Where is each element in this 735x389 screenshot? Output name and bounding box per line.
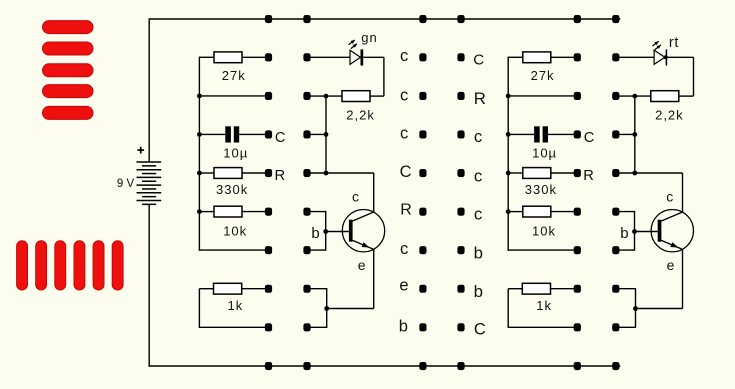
pin dot colA row8 right	[574, 323, 581, 331]
node letter c mid-right row5	[474, 205, 482, 224]
wire emitter bracket right	[635, 288, 637, 328]
LED gn light arrows	[349, 40, 357, 49]
pin dot colB row8 left	[303, 323, 310, 331]
capacitor 10u right	[534, 126, 548, 142]
wire emitter junction to emitter right	[636, 308, 683, 310]
svg-text:10µ: 10µ	[532, 146, 557, 161]
wire emitter bracket left	[326, 288, 328, 328]
node letter R row4 left	[275, 168, 286, 184]
junction base right	[632, 229, 637, 234]
pin dot colA row2 left	[265, 92, 272, 100]
pin dot colB row4 right	[612, 169, 619, 177]
wire junction down right	[634, 96, 636, 173]
wire bus to R 330k left	[199, 172, 214, 174]
wire 330k to node right	[551, 172, 578, 174]
pin dot colB row3 right	[612, 130, 619, 138]
wire bus to R 27k left	[199, 56, 214, 58]
pin dot colB row6 right	[612, 246, 619, 254]
svg-text:1k: 1k	[228, 298, 244, 313]
wire collector vertical left	[373, 173, 375, 212]
LED rt light arrows	[653, 41, 661, 50]
svg-text:b: b	[474, 282, 483, 301]
junction bus row5 left	[197, 209, 202, 214]
label 27k left	[222, 68, 246, 83]
svg-text:c: c	[352, 188, 359, 204]
pin dot mid-left row4	[419, 169, 426, 177]
svg-text:330k: 330k	[525, 182, 557, 197]
pin dot colA row3 right	[574, 130, 581, 138]
label 1k left	[228, 298, 244, 313]
svg-text:C: C	[584, 130, 595, 146]
wire bus to R 10k right	[508, 211, 523, 213]
node dot bottom rail a	[265, 362, 272, 370]
transistor Q right	[635, 210, 694, 252]
svg-text:R: R	[583, 168, 594, 184]
label rt	[669, 35, 679, 51]
junction row3 left	[324, 132, 329, 137]
wire 27k to node right	[551, 56, 578, 58]
wire node row3 stub left	[307, 133, 326, 135]
pin dot colA row1 left	[265, 53, 272, 61]
pin dot mid-left row1	[419, 53, 426, 61]
label 10u right	[532, 146, 557, 161]
resistor 330k right	[523, 168, 551, 179]
pin dot colB row6 left	[303, 246, 310, 254]
wire LED rt to corner	[666, 56, 693, 58]
svg-text:c: c	[474, 205, 482, 224]
label c collector left	[352, 188, 359, 204]
svg-text:e: e	[667, 257, 675, 273]
pin dot colB row7 left	[303, 285, 310, 293]
wire 2.2k to LED corner right	[679, 95, 694, 97]
pin dot colB row3 left	[303, 130, 310, 138]
wire bus to R 27k right	[508, 56, 523, 58]
wire LED gn to corner	[363, 56, 384, 58]
wire 1k bracket left	[198, 289, 200, 328]
pin dot mid-right row7	[457, 285, 464, 293]
wire node row7 to bracket left	[307, 288, 327, 290]
red bar marker H5	[43, 106, 94, 119]
wire bus to node row2 right	[508, 95, 577, 97]
node letter c mid-left row1	[400, 47, 408, 65]
wire supply bus right	[507, 57, 509, 251]
red bar marker H1	[43, 21, 94, 34]
svg-text:C: C	[474, 321, 486, 339]
node letter C mid-right row8	[474, 321, 486, 339]
node dot bottom rail c3	[419, 362, 426, 370]
wire node row5 to bracket right	[616, 211, 635, 213]
wire bracket to node row8 right	[508, 326, 577, 328]
pin dot mid-left row2	[419, 92, 426, 100]
node letter C mid-left row4	[400, 163, 412, 181]
LED rt diode	[654, 49, 666, 65]
red bar marker V1	[17, 241, 28, 290]
wire emitter junction to emitter left	[327, 308, 374, 310]
pin dot colA row6 right	[574, 246, 581, 254]
node letter b mid-right row6	[474, 243, 483, 262]
red bar marker H3	[43, 64, 94, 77]
node dot bottom rail b	[303, 362, 310, 370]
wire bracket to node row8 left	[199, 326, 268, 328]
wire battery negative to bottom rail	[148, 204, 150, 366]
svg-text:R: R	[474, 89, 486, 108]
junction bus row3 left	[197, 132, 202, 137]
red bar marker V4	[74, 241, 85, 290]
svg-text:27k: 27k	[531, 68, 555, 83]
pin dot mid-left row6	[419, 246, 426, 254]
resistor 10k left	[214, 206, 242, 217]
wire corner down to 2.2k (right)	[693, 57, 695, 96]
node letter R row4 right	[583, 168, 594, 184]
label 9 V	[117, 178, 135, 190]
svg-text:2,2k: 2,2k	[346, 108, 375, 123]
svg-text:10k: 10k	[223, 224, 247, 239]
wire 10k to node left	[242, 211, 269, 213]
pin dot mid-right row6	[457, 246, 464, 254]
pin dot colA row2 right	[574, 92, 581, 100]
wire bus to R 10k left	[199, 211, 214, 213]
junction row3 right	[632, 132, 637, 137]
wire node row6 to bracket left	[307, 249, 326, 251]
node letter R mid-right row2	[474, 89, 486, 108]
wire node row4 to collector right	[616, 172, 683, 174]
node dot top rail c	[574, 15, 581, 23]
resistor 2.2k left	[342, 91, 370, 102]
wire node row6 to bracket right	[616, 249, 635, 251]
battery B1 9V	[137, 162, 162, 204]
wire base bracket left	[325, 211, 327, 251]
resistor 1k right	[522, 283, 550, 294]
pin dot mid-left row3	[419, 130, 426, 138]
wire corner down to 2.2k (left)	[383, 57, 385, 96]
wire node to junction 2.2k left	[307, 95, 342, 97]
svg-text:b: b	[399, 317, 408, 335]
svg-text:b: b	[620, 225, 628, 242]
junction bus row3 right	[506, 132, 511, 137]
junction emitter bracket left	[324, 306, 329, 311]
svg-text:c: c	[400, 47, 408, 65]
wire bus to C 10u right	[508, 133, 534, 135]
red bar marker V2	[36, 241, 47, 290]
svg-text:c: c	[400, 240, 408, 258]
node letter e mid-left row7	[399, 277, 408, 295]
svg-text:e: e	[399, 277, 408, 295]
capacitor 10u left	[225, 126, 239, 142]
node letter c mid-right row4	[474, 167, 482, 186]
pin dot colB row8 right	[612, 323, 619, 331]
pin dot colA row7 right	[574, 285, 581, 293]
pin dot mid-left row7	[419, 285, 426, 293]
wire node row4 to collector left	[307, 172, 374, 174]
pin dot colA row5 left	[265, 208, 272, 216]
label 10k left	[223, 224, 247, 239]
wire bracket to R 1k right	[508, 288, 522, 290]
node letter c mid-right row3	[474, 127, 482, 146]
pin dot colB row1 right	[612, 53, 619, 61]
wire 1k to node left	[242, 288, 269, 290]
label gn	[361, 30, 377, 45]
wire battery positive to top rail	[148, 19, 150, 162]
label e emitter left	[358, 257, 366, 273]
pin dot colA row5 right	[574, 208, 581, 216]
red bar marker V5	[93, 241, 104, 290]
pin dot colA row7 left	[265, 285, 272, 293]
label 330k right	[525, 182, 557, 197]
label 2.2k left	[346, 108, 375, 123]
label 330k left	[216, 182, 248, 197]
pin dot colB row2 left	[303, 92, 310, 100]
resistor 27k right	[523, 52, 551, 63]
pin dot mid-left row5	[419, 208, 426, 216]
wire 330k to node left	[242, 172, 269, 174]
label 1k right	[536, 298, 552, 313]
wire node row5 to bracket left	[307, 211, 326, 213]
pin dot colA row1 right	[574, 53, 581, 61]
wire 10k to node right	[551, 211, 578, 213]
wire bus to node row2 left	[199, 95, 268, 97]
node letter C row3 left	[275, 130, 286, 146]
node letter c mid-left row3	[400, 124, 408, 142]
pin dot colA row6 left	[265, 246, 272, 254]
junction row4 left	[324, 171, 329, 176]
svg-text:C: C	[473, 52, 484, 69]
pin dot colB row7 right	[612, 285, 619, 293]
resistor 2.2k right	[651, 91, 679, 102]
label 2.2k right	[655, 108, 684, 123]
red bar marker H2	[43, 42, 94, 55]
node dot bottom rail c4	[457, 362, 464, 370]
wire node row8 to bracket left	[307, 326, 327, 328]
svg-text:10µ: 10µ	[223, 146, 248, 161]
pin dot mid-right row5	[457, 208, 464, 216]
node dot top rail b	[303, 15, 310, 23]
pin dot mid-right row4	[457, 169, 464, 177]
pin dot mid-left row8	[419, 323, 426, 331]
wire 10u to node right	[548, 133, 577, 135]
node letter c mid-left row6	[400, 240, 408, 258]
svg-text:c: c	[400, 86, 408, 104]
label 10k right	[532, 224, 556, 239]
svg-text:10k: 10k	[532, 224, 556, 239]
node letter C mid-right row1	[473, 52, 484, 69]
label b base left	[311, 225, 319, 242]
junction bus row4 right	[506, 171, 511, 176]
svg-text:gn: gn	[361, 30, 377, 45]
svg-text:c: c	[400, 124, 408, 142]
pin dot colA row8 left	[265, 323, 272, 331]
svg-text:c: c	[474, 167, 482, 186]
node letter b mid-right row7	[474, 282, 483, 301]
svg-text:9 V: 9 V	[117, 178, 135, 190]
node dot top rail c4	[457, 15, 464, 23]
pin dot mid-right row2	[457, 92, 464, 100]
pin dot mid-right row3	[457, 130, 464, 138]
wire node row7 to bracket right	[616, 288, 636, 290]
pin dot mid-right row8	[457, 323, 464, 331]
label 10u left	[223, 146, 248, 161]
svg-text:b: b	[474, 243, 483, 262]
resistor 10k right	[523, 206, 551, 217]
node dot bottom rail c	[574, 362, 581, 370]
wire 2.2k to LED corner left	[370, 95, 384, 97]
label e emitter right	[667, 257, 675, 273]
svg-text:e: e	[358, 257, 366, 273]
svg-text:rt: rt	[669, 35, 679, 51]
label b base right	[620, 225, 628, 242]
wire node to junction 2.2k right	[616, 95, 651, 97]
wire 10u to node left	[239, 133, 268, 135]
junction 2.2k left right	[632, 94, 637, 99]
pin dot colB row4 left	[303, 169, 310, 177]
red bar marker H4	[43, 85, 94, 98]
svg-text:C: C	[275, 130, 286, 146]
pin dot colB row5 left	[303, 208, 310, 216]
junction 2.2k left left	[324, 94, 329, 99]
wire top rail	[149, 18, 621, 20]
wire supply bus left	[198, 57, 200, 251]
svg-text:330k: 330k	[216, 182, 248, 197]
wire bus to C 10u left	[199, 133, 225, 135]
label 27k right	[531, 68, 555, 83]
node dot top rail d	[612, 15, 619, 23]
label c collector right	[666, 188, 673, 204]
red bar marker V6	[112, 241, 123, 290]
wire node to LED gn	[307, 56, 350, 58]
node letter c mid-left row2	[400, 86, 408, 104]
LED gn diode	[350, 49, 363, 65]
wire emitter vertical right	[682, 249, 684, 308]
junction base left	[323, 229, 328, 234]
wire bottom rail	[149, 365, 621, 367]
junction bus row2 right	[506, 94, 511, 99]
svg-text:R: R	[275, 168, 286, 184]
pin dot colA row3 left	[265, 130, 272, 138]
svg-text:c: c	[666, 188, 673, 204]
resistor 27k left	[214, 52, 242, 63]
wire 1k bracket right	[507, 289, 509, 328]
node letter C row3 right	[584, 130, 595, 146]
pin dot colB row1 left	[303, 53, 310, 61]
wire node row3 stub right	[616, 133, 635, 135]
wire 1k to node right	[551, 288, 578, 290]
node dot top rail c3	[419, 15, 426, 23]
wire bus corner to node row6 right	[508, 249, 578, 251]
junction bus row5 right	[506, 209, 511, 214]
pin dot colA row4 right	[574, 169, 581, 177]
pin dot colB row2 right	[612, 92, 619, 100]
wire node to LED rt	[616, 56, 654, 58]
wire bus corner to node row6 left	[199, 249, 269, 251]
wire emitter vertical left	[373, 249, 375, 308]
node letter R mid-left row5	[400, 201, 412, 218]
pin dot mid-right row1	[457, 53, 464, 61]
svg-text:C: C	[400, 163, 412, 181]
red bar marker V3	[55, 241, 66, 290]
junction emitter bracket right	[633, 306, 638, 311]
svg-text:R: R	[400, 201, 412, 218]
svg-text:b: b	[311, 225, 319, 242]
junction LED rt cathode	[664, 55, 668, 59]
wire collector vertical right	[682, 173, 684, 212]
svg-text:1k: 1k	[536, 298, 552, 313]
wire bus to R 330k right	[508, 172, 523, 174]
node dot bottom rail d	[612, 362, 619, 370]
pin dot colB row5 right	[612, 208, 619, 216]
node letter b mid-left row8	[399, 317, 408, 335]
pin dot colA row4 left	[265, 169, 272, 177]
junction bus row4 left	[197, 171, 202, 176]
wire bracket to R 1k left	[199, 288, 213, 290]
wire junction down left	[325, 96, 327, 173]
node dot top rail a	[265, 15, 272, 23]
svg-text:2,2k: 2,2k	[655, 108, 684, 123]
transistor Q left	[326, 210, 385, 252]
battery plus sign	[137, 147, 144, 154]
junction row4 right	[632, 171, 637, 176]
resistor 1k left	[214, 283, 242, 294]
junction bus row2 left	[197, 94, 202, 99]
svg-text:27k: 27k	[222, 68, 246, 83]
wire base bracket right	[634, 211, 636, 251]
svg-text:c: c	[474, 127, 482, 146]
resistor 330k left	[214, 168, 242, 179]
wire 27k to node left	[242, 56, 269, 58]
wire node row8 to bracket right	[616, 326, 636, 328]
